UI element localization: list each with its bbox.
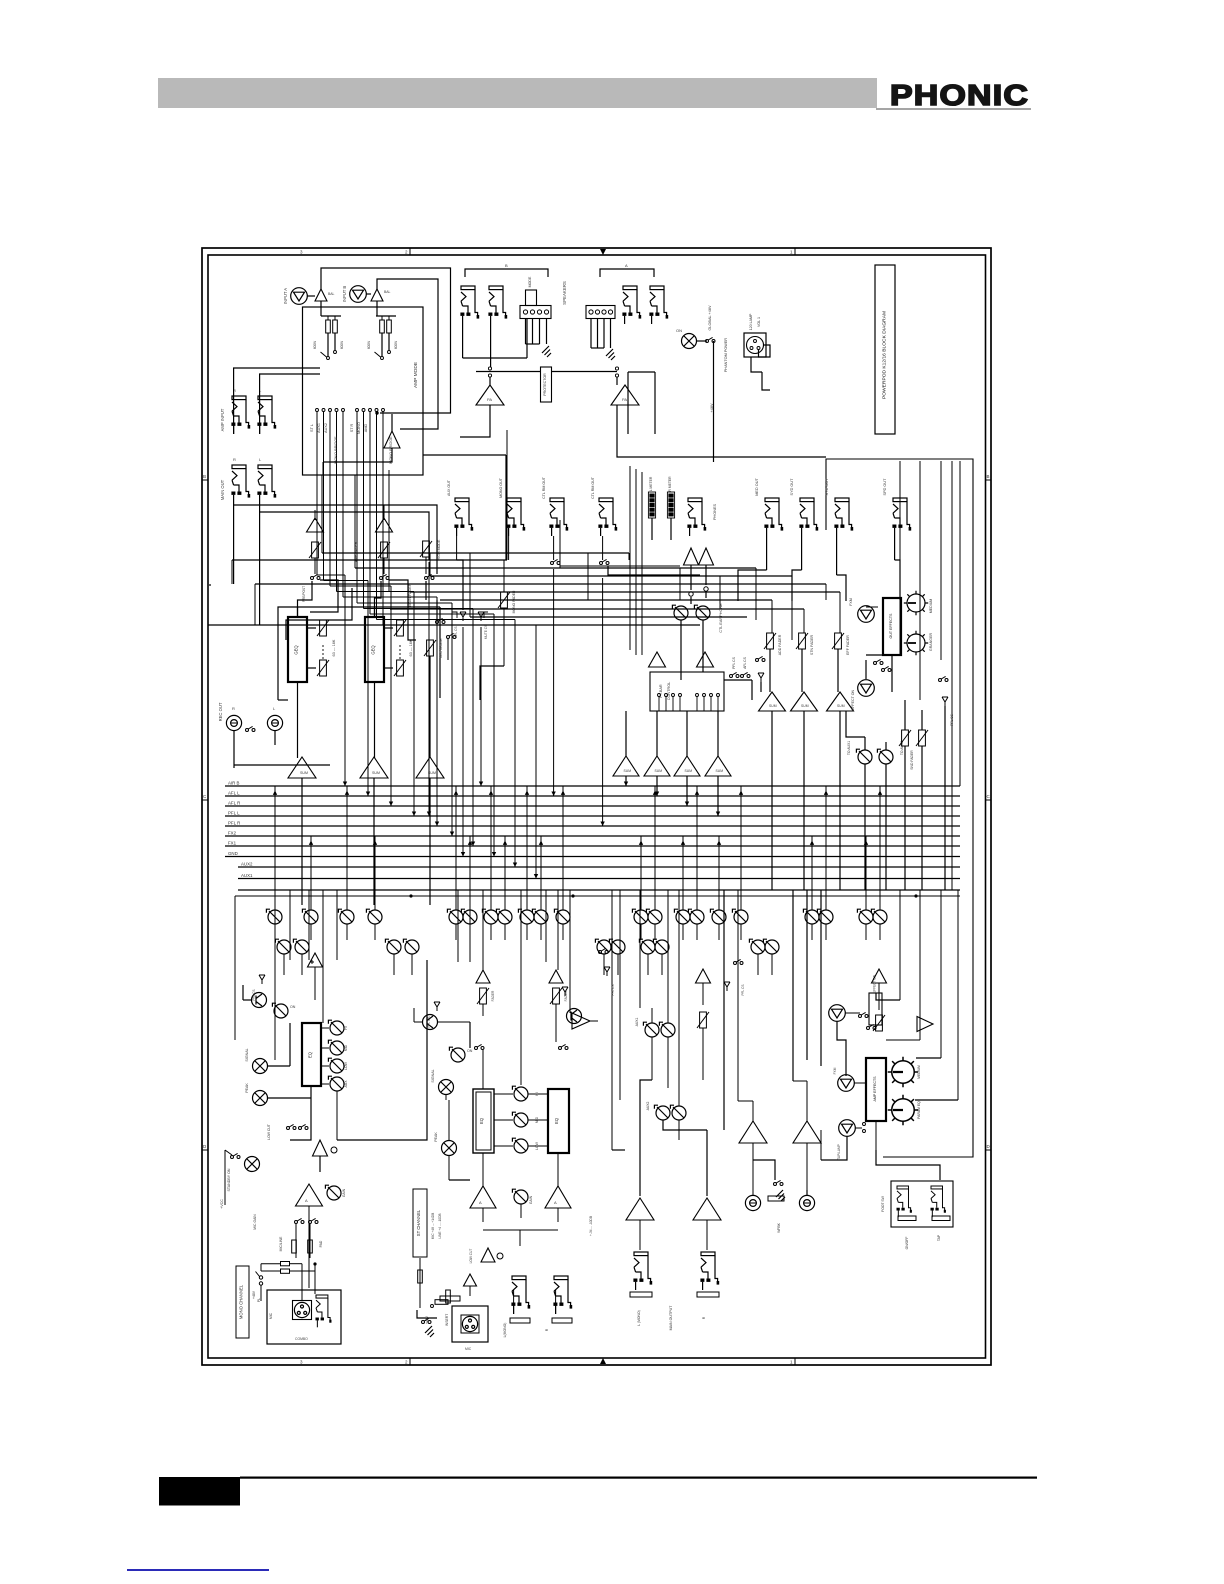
svg-text:ST CHANNEL: ST CHANNEL — [416, 1209, 421, 1236]
svg-text:+-34 ... -10DB: +-34 ... -10DB — [589, 1216, 593, 1236]
svg-text:PROTECTOR: PROTECTOR — [543, 373, 547, 396]
svg-text:120 LAMP: 120 LAMP — [749, 313, 753, 330]
svg-text:MODE: MODE — [528, 276, 532, 287]
svg-text:MID: MID — [344, 1044, 348, 1051]
svg-text:AUX: AUX — [344, 1080, 348, 1088]
svg-text:MEDIUM: MEDIUM — [929, 599, 933, 614]
svg-text:WFBK: WFBK — [777, 1222, 781, 1233]
svg-text:ON/OFF: ON/OFF — [905, 1237, 909, 1250]
svg-text:R: R — [232, 706, 235, 711]
svg-text:SPD OUT: SPD OUT — [883, 478, 887, 496]
svg-text:FX2: FX2 — [228, 830, 237, 835]
svg-text:A: A — [479, 1200, 482, 1205]
svg-text:AUX1: AUX1 — [241, 873, 253, 878]
svg-text:EQ: EQ — [479, 1117, 484, 1124]
svg-text:AMD: AMD — [364, 424, 368, 433]
svg-text:HI: HI — [344, 1026, 348, 1029]
svg-text:EQ: EQ — [308, 1051, 313, 1058]
svg-text:600W: 600W — [313, 341, 317, 349]
svg-text:PEAK: PEAK — [434, 1132, 438, 1142]
svg-text:MONO BRIDGE: MONO BRIDGE — [334, 436, 338, 464]
svg-text:+48V: +48V — [252, 1290, 256, 1299]
svg-text:L (MONO): L (MONO) — [637, 1310, 641, 1326]
svg-text:L(MONO): L(MONO) — [503, 1323, 507, 1338]
svg-text:SYD OUT: SYD OUT — [825, 478, 829, 496]
svg-text:ON: ON — [676, 328, 682, 333]
svg-text:EFFECT ON: EFFECT ON — [851, 689, 855, 710]
svg-text:AUX1: AUX1 — [635, 1017, 639, 1026]
svg-text:63 --- 16K: 63 --- 16K — [332, 639, 336, 656]
svg-text:AFL L: AFL L — [228, 790, 240, 795]
svg-text:600W: 600W — [394, 341, 398, 349]
svg-text:CTL EARPHONE: CTL EARPHONE — [719, 603, 723, 633]
svg-text:INPUT B: INPUT B — [342, 286, 347, 303]
svg-text:OUT EFFECTS: OUT EFFECTS — [889, 613, 893, 638]
svg-text:MIC GAIN: MIC GAIN — [253, 1214, 257, 1230]
svg-text:SIGNAL: SIGNAL — [431, 1069, 435, 1082]
svg-text:FOOT SW: FOOT SW — [881, 1195, 885, 1212]
svg-text:MAIN OUTPUT: MAIN OUTPUT — [669, 1305, 673, 1331]
svg-text:MID: MID — [535, 1116, 539, 1123]
svg-text:PHONIC: PHONIC — [890, 80, 1029, 112]
svg-text:SUM: SUM — [801, 704, 809, 708]
svg-text:LOW CUT: LOW CUT — [469, 1249, 473, 1264]
svg-text:LOW: LOW — [535, 1141, 539, 1150]
svg-text:POWERPOD K12/16 BLOCK DIAGRAM: POWERPOD K12/16 BLOCK DIAGRAM — [882, 311, 888, 399]
svg-text:MONO CHANNEL: MONO CHANNEL — [239, 1284, 244, 1319]
svg-text:PHONES: PHONES — [713, 504, 717, 521]
svg-text:AFL CS: AFL CS — [743, 656, 747, 668]
svg-text:CONTROL: CONTROL — [667, 682, 671, 701]
svg-text:PFL CS: PFL CS — [732, 656, 736, 668]
svg-text:GAIN: GAIN — [529, 1195, 533, 1204]
svg-text:PL: PL — [257, 1298, 261, 1302]
svg-text:+VCC: +VCC — [220, 1199, 224, 1209]
svg-text:INPUT A: INPUT A — [283, 288, 288, 304]
svg-text:R: R — [702, 1316, 706, 1319]
svg-text:D: D — [203, 1144, 207, 1149]
svg-text:MONO OUT: MONO OUT — [499, 477, 503, 498]
svg-text:AUX2: AUX2 — [324, 423, 328, 433]
svg-text:MONO FADER: MONO FADER — [512, 590, 516, 613]
svg-text:PARAM EQ: PARAM EQ — [917, 1101, 921, 1119]
svg-text:L: L — [259, 457, 262, 462]
svg-text:ST L: ST L — [310, 424, 314, 432]
svg-text:AFL R: AFL R — [228, 800, 240, 805]
svg-text:GEQ: GEQ — [371, 645, 376, 655]
svg-text:GEQ: GEQ — [294, 645, 299, 655]
svg-text:ADD FADER: ADD FADER — [778, 634, 782, 655]
svg-text:LOW: LOW — [344, 1061, 348, 1070]
svg-text:BAL: BAL — [328, 292, 335, 296]
svg-text:PT.BAR: PT.BAR — [659, 684, 663, 698]
svg-text:PAD: PAD — [319, 1240, 323, 1247]
svg-text:STANDBY ON: STANDBY ON — [227, 1168, 231, 1191]
svg-text:C: C — [987, 794, 991, 799]
svg-text:PFL R: PFL R — [228, 820, 240, 825]
svg-text:600W: 600W — [367, 341, 371, 349]
svg-text:COMBO: COMBO — [295, 1337, 308, 1341]
svg-text:600W: 600W — [340, 341, 344, 349]
svg-text:BAL: BAL — [384, 290, 391, 294]
svg-text:MEDIUM: MEDIUM — [917, 1065, 921, 1079]
svg-text:EQ: EQ — [554, 1117, 559, 1124]
svg-text:TO AUX1: TO AUX1 — [847, 741, 851, 755]
svg-text:SUM: SUM — [372, 771, 380, 775]
svg-text:ST R: ST R — [350, 423, 354, 432]
svg-text:MAIN FADER: MAIN FADER — [408, 583, 412, 606]
svg-text:MED OUT: MED OUT — [755, 478, 759, 496]
svg-text:SPEAKERS: SPEAKERS — [562, 281, 567, 305]
svg-text:PFL CS: PFL CS — [741, 984, 745, 995]
svg-text:MIC MODE: MIC MODE — [439, 638, 443, 658]
svg-text:CTL RM OUT: CTL RM OUT — [591, 476, 595, 499]
svg-text:L METER: L METER — [649, 476, 653, 491]
svg-text:R: R — [233, 457, 236, 462]
svg-text:AUX OUT: AUX OUT — [447, 479, 451, 496]
svg-text:PA: PA — [622, 397, 627, 402]
svg-text:MAIN OUT: MAIN OUT — [220, 479, 225, 500]
svg-text:1: 1 — [790, 250, 793, 255]
svg-text:C: C — [203, 794, 207, 799]
svg-text:3: 3 — [300, 1360, 303, 1365]
svg-text:L: L — [273, 706, 276, 711]
svg-text:LOW CUT: LOW CUT — [267, 1124, 271, 1140]
svg-text:FXM: FXM — [849, 598, 853, 606]
svg-text:FXM: FXM — [833, 1067, 837, 1074]
svg-text:INSERT: INSERT — [445, 1314, 449, 1326]
svg-text:GND: GND — [228, 851, 238, 856]
svg-text:VOL 1: VOL 1 — [757, 317, 761, 327]
svg-text:REC OUT: REC OUT — [218, 702, 223, 721]
svg-text:MIC: MIC — [465, 1347, 472, 1351]
svg-text:FX1: FX1 — [228, 840, 237, 845]
svg-text:A: A — [305, 1198, 308, 1203]
svg-text:B: B — [987, 474, 990, 479]
svg-text:PA: PA — [487, 397, 492, 402]
svg-text:B: B — [203, 474, 206, 479]
svg-text:PFL CS: PFL CS — [252, 989, 256, 1000]
svg-text:AUX2: AUX2 — [646, 1101, 650, 1110]
svg-text:LINE +4 ... -10DB: LINE +4 ... -10DB — [438, 1213, 442, 1238]
svg-text:SUM: SUM — [685, 769, 693, 773]
svg-text:MUTE CS: MUTE CS — [484, 625, 488, 639]
svg-text:PFL CS: PFL CS — [611, 984, 615, 995]
svg-text:MIC: MIC — [269, 1312, 273, 1319]
svg-text:ON: ON — [467, 1049, 473, 1053]
svg-text:HI: HI — [535, 1092, 539, 1095]
svg-text:+48V: +48V — [425, 1315, 429, 1324]
svg-text:PHANTOM POWER: PHANTOM POWER — [724, 338, 728, 373]
svg-text:STN FADER: STN FADER — [810, 635, 814, 656]
svg-text:CTL RM OUT: CTL RM OUT — [542, 476, 546, 499]
svg-text:A: A — [625, 263, 628, 268]
svg-text:MIC/LINE: MIC/LINE — [279, 1236, 283, 1251]
svg-text:3: 3 — [300, 250, 303, 255]
svg-text:MONO: MONO — [357, 422, 361, 434]
svg-text:+48V: +48V — [710, 403, 714, 412]
svg-text:AUX2: AUX2 — [241, 861, 253, 866]
svg-text:AUX1: AUX1 — [317, 423, 321, 433]
svg-text:ON: ON — [290, 1005, 296, 1009]
svg-text:AMP INPUT: AMP INPUT — [220, 408, 225, 431]
svg-text:EFF FADER: EFF FADER — [846, 635, 850, 655]
svg-text:AMP EFFECTS: AMP EFFECTS — [873, 1076, 877, 1102]
svg-text:TAP: TAP — [937, 1234, 941, 1241]
svg-text:FADER: FADER — [491, 990, 495, 1001]
svg-text:AIR B: AIR B — [228, 780, 240, 785]
svg-text:SND FADER: SND FADER — [910, 750, 914, 770]
svg-text:SUM: SUM — [655, 769, 663, 773]
svg-text:B: B — [505, 263, 508, 268]
svg-text:2: 2 — [405, 1360, 408, 1365]
svg-text:SUM: SUM — [769, 704, 777, 708]
svg-text:A: A — [554, 1200, 557, 1205]
svg-text:GAIN: GAIN — [342, 1188, 346, 1197]
svg-text:SYD OUT: SYD OUT — [790, 478, 794, 496]
svg-text:SUM: SUM — [716, 769, 724, 773]
svg-text:D: D — [987, 1144, 991, 1149]
svg-text:SIGNAL: SIGNAL — [245, 1048, 249, 1061]
svg-text:R: R — [545, 1328, 549, 1331]
svg-text:R METER: R METER — [668, 476, 672, 492]
svg-text:PFL CS: PFL CS — [950, 713, 954, 725]
svg-text:PFL L: PFL L — [228, 810, 240, 815]
svg-text:SUM: SUM — [837, 704, 845, 708]
svg-text:SUM: SUM — [624, 769, 632, 773]
svg-text:SUM: SUM — [300, 771, 308, 775]
svg-text:MIC +48 ... +14DB: MIC +48 ... +14DB — [431, 1213, 435, 1239]
svg-text:GLOBAL +48V: GLOBAL +48V — [708, 305, 712, 331]
svg-text:TAP/LAMP: TAP/LAMP — [837, 1144, 841, 1160]
svg-text:PEAK: PEAK — [245, 1083, 249, 1093]
svg-text:PFL CS: PFL CS — [427, 1016, 431, 1027]
svg-text:1: 1 — [790, 1360, 793, 1365]
svg-text:GRANGER: GRANGER — [929, 633, 933, 652]
svg-text:AMP MODE: AMP MODE — [413, 362, 419, 388]
svg-text:63 --- 16K: 63 --- 16K — [409, 639, 413, 656]
svg-text:HIGH MODE: HIGH MODE — [437, 539, 441, 560]
svg-text:2: 2 — [405, 250, 408, 255]
